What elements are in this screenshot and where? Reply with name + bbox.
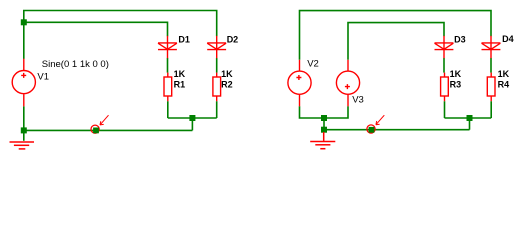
wire V1 stem top [23, 22, 25, 59]
svg-text:D2: D2 [227, 34, 239, 44]
wire V2 top to D4 [300, 11, 492, 60]
wire bottom (ground rail) [24, 129, 193, 131]
node junction R3R4 mid [467, 115, 473, 121]
wire drop from join to bottom [191, 118, 193, 130]
wire D1 to R1 [167, 58, 169, 73]
diode D3 [435, 36, 454, 58]
wire R2 bottom [216, 101, 218, 118]
wire R3-R4 join [445, 117, 492, 119]
node junction ground-left [21, 127, 27, 133]
wire V3 top to D3 [348, 23, 444, 60]
wire D2 to R2 [216, 58, 218, 73]
svg-text:D3: D3 [454, 34, 466, 44]
resistor R4 [487, 73, 495, 102]
voltage source V2 [288, 60, 311, 107]
resistor R1 [164, 73, 172, 102]
wire ground stub [23, 130, 25, 140]
voltage source V3 [336, 60, 359, 107]
current probe left [91, 115, 109, 133]
wire R1 bottom [167, 101, 169, 118]
voltage source V1 [12, 59, 35, 107]
svg-text:V1: V1 [37, 71, 49, 82]
diode D4 [482, 36, 501, 58]
diode D1 [158, 36, 177, 58]
wire bottom rail right [324, 129, 470, 131]
wire top outer (V1 top to D2) [24, 11, 217, 37]
node junction R1R2 mid [189, 115, 195, 121]
wire V1 stem bottom [23, 106, 25, 130]
svg-text:R2: R2 [221, 80, 233, 90]
wire V2 bottom to mid junction [300, 106, 325, 118]
wire mid junction down [323, 118, 325, 130]
node junction V2V3 mid [321, 115, 327, 121]
svg-text:R4: R4 [498, 80, 510, 90]
wire D3 to R3 [443, 58, 445, 73]
wire R1-R2 join [168, 117, 217, 119]
wire D4 to R4 [490, 58, 492, 73]
svg-text:1K: 1K [450, 69, 462, 79]
node junction top-left [21, 19, 27, 25]
wire R4 bottom [490, 101, 492, 118]
ground right [310, 132, 335, 149]
wire V3 bottom to mid junction [324, 106, 348, 118]
svg-text:1K: 1K [221, 69, 233, 79]
svg-text:1K: 1K [174, 69, 186, 79]
resistor R3 [441, 73, 449, 102]
resistor R2 [213, 73, 221, 102]
svg-text:R3: R3 [450, 80, 462, 90]
svg-text:V2: V2 [307, 58, 319, 69]
svg-text:1K: 1K [498, 69, 510, 79]
current probe right [367, 115, 384, 133]
wire R3 bottom [444, 101, 446, 118]
wire second (junction to D1) [24, 22, 168, 36]
node probe square left [93, 128, 99, 134]
svg-text:R1: R1 [174, 80, 186, 90]
wire drop from join right [469, 118, 471, 130]
diode D2 [207, 36, 226, 58]
node junction ground-right [321, 127, 327, 133]
svg-text:Sine(0 1 1k 0 0): Sine(0 1 1k 0 0) [42, 59, 109, 70]
node probe square right [369, 127, 375, 133]
ground left [10, 142, 35, 149]
svg-text:V3: V3 [352, 94, 364, 105]
svg-text:D4: D4 [502, 34, 514, 44]
svg-text:D1: D1 [178, 34, 190, 44]
